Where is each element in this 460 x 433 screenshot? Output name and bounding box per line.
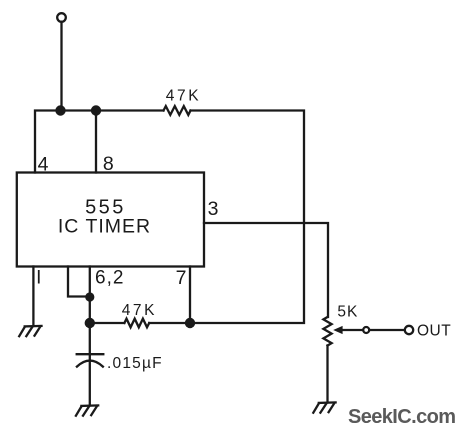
junction dot node C (pin 6 / bottom rail / capacitor) — [85, 318, 95, 328]
capacitor C1 top plate — [77, 353, 104, 355]
wire pin 3 out to potentiometer top — [204, 223, 328, 317]
junction dot node A (V+ / rail) — [55, 105, 65, 115]
terminal V+ (open circle, top left) — [57, 13, 66, 22]
op-amp U1 555 IC TIMER box — [17, 173, 204, 267]
junction dot pins 6-2 — [85, 292, 94, 301]
wire pin 7 down to bottom rail — [189, 267, 191, 324]
resistor R1 47K (top) — [164, 106, 191, 115]
terminal OUT (open circle) — [405, 326, 413, 334]
svg-text:I: I — [36, 268, 41, 289]
svg-text:47K: 47K — [166, 87, 201, 104]
wire top rail left segment with pin-4 corner — [35, 111, 164, 173]
wire pin 1 down to ground — [32, 267, 34, 326]
ground (capacitor) — [76, 405, 98, 415]
capacitor C1 curved plate — [77, 361, 103, 367]
potentiometer wiper arrow — [333, 326, 342, 334]
svg-text:OUT: OUT — [417, 323, 451, 340]
svg-text:47K: 47K — [122, 302, 157, 319]
junction dot node B (pin 8 / rail) — [91, 105, 101, 115]
svg-text:SeekIC.com: SeekIC.com — [348, 406, 455, 428]
wire pot bottom to ground — [326, 346, 328, 403]
svg-text:.015µF: .015µF — [107, 355, 163, 372]
svg-text:IC TIMER: IC TIMER — [58, 216, 151, 238]
terminal small (wiper tap) — [363, 327, 369, 333]
junction dot node D (pin 7 / bottom rail) — [185, 318, 195, 328]
wire V+ down to top rail — [60, 22, 62, 111]
svg-text:5K: 5K — [337, 304, 358, 321]
wire pin 6 down to bottom rail — [89, 267, 91, 324]
wire pin 2 jog to pin 6 — [68, 267, 90, 297]
svg-text:3: 3 — [208, 198, 219, 220]
wire bottom rail left segment — [90, 322, 125, 324]
ground (potentiometer) — [313, 402, 335, 412]
svg-text:7: 7 — [176, 267, 187, 289]
wire wiper to terminal — [342, 329, 363, 331]
wire capacitor leads — [89, 323, 91, 405]
wire pin 8 to rail — [95, 111, 97, 173]
ground (pin 1) — [19, 326, 41, 336]
svg-text:6,2: 6,2 — [95, 268, 124, 289]
resistor R2 47K (bottom) — [124, 319, 149, 328]
potentiometer R3 5K body — [323, 317, 331, 346]
wire bottom rail middle segment — [149, 322, 190, 324]
wire top rail right segment, down right side to bottom rail — [189, 111, 305, 324]
wire tap to OUT terminal — [369, 329, 404, 331]
